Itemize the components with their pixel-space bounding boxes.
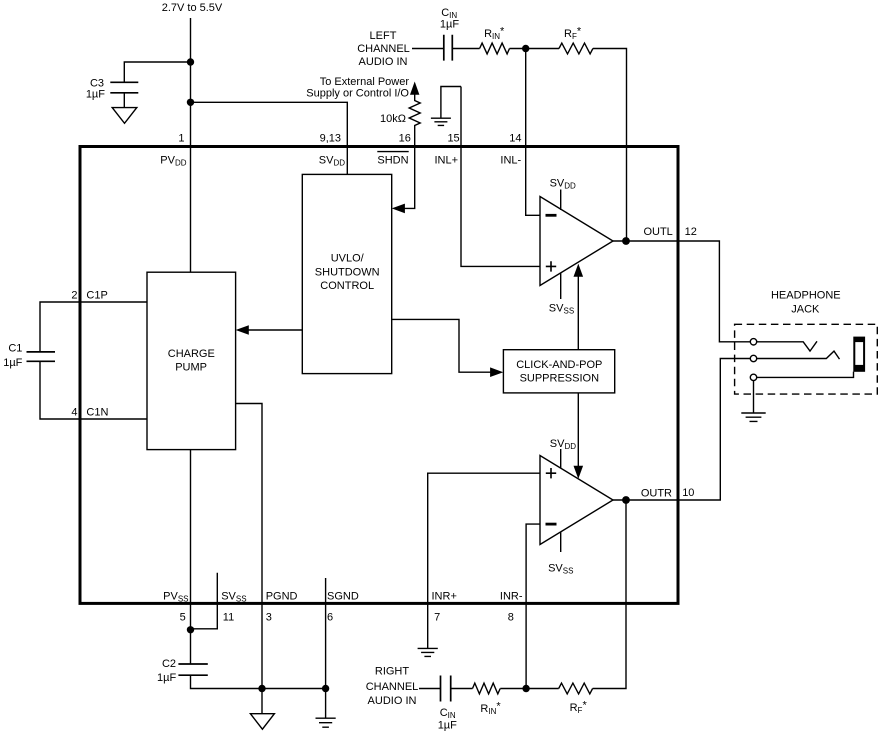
svg-text:AUDIO IN: AUDIO IN	[368, 695, 417, 707]
jack ring contact	[757, 351, 840, 359]
ground signal-ground at INL+ bias	[431, 118, 451, 125]
op-amp U1 SVDD stub	[550, 177, 576, 210]
svg-text:10kΩ: 10kΩ	[380, 113, 406, 125]
wire INR+ pin 7 to U2 and ground	[428, 473, 540, 648]
resistor RIN (right)	[473, 683, 502, 716]
click-and-pop suppression block	[503, 350, 614, 393]
wire CIN to RIN (right)	[451, 688, 473, 690]
jack tip terminal circle	[750, 339, 756, 345]
node VDD junction lower	[187, 99, 194, 106]
node PGND junction	[258, 685, 265, 692]
op-amp U1 left channel	[540, 197, 613, 286]
node OUTL junction	[622, 237, 630, 245]
resistor 10k pull-up on SHDN	[380, 93, 420, 147]
svg-text:2.7V to 5.5V: 2.7V to 5.5V	[162, 2, 223, 14]
svg-text:INL+: INL+	[435, 155, 459, 167]
svg-text:16: 16	[399, 133, 411, 145]
wire VDD to SVDD pin 9,13	[191, 102, 348, 174]
svg-text:15: 15	[447, 133, 459, 145]
svg-text:4: 4	[71, 407, 77, 419]
svg-text:OUTR: OUTR	[641, 487, 672, 499]
label LEFT CHANNEL AUDIO IN	[357, 30, 410, 68]
svg-text:PGND: PGND	[266, 591, 298, 603]
svg-text:SHUTDOWN: SHUTDOWN	[315, 266, 380, 278]
svg-text:7: 7	[434, 612, 440, 624]
svg-text:1: 1	[178, 133, 184, 145]
label To External Power Supply or Control I/O	[306, 76, 409, 100]
svg-text:SHDN: SHDN	[377, 155, 408, 167]
svg-text:OUTL: OUTL	[643, 226, 672, 238]
svg-text:UVLO/: UVLO/	[331, 253, 365, 265]
label HEADPHONE JACK	[771, 290, 841, 316]
svg-text:C1P: C1P	[86, 290, 107, 302]
IC boundary box	[80, 147, 678, 604]
jack tip contact	[757, 341, 817, 351]
wire PGND pin 3 from charge pump	[236, 404, 262, 714]
wire UVLO to click-and-pop with arrowhead	[392, 319, 504, 377]
svg-text:1µF: 1µF	[438, 720, 457, 732]
node PVSS junction	[187, 626, 194, 633]
svg-text:14: 14	[509, 133, 521, 145]
wire C2 to ground bus	[191, 675, 326, 688]
jack sleeve terminal circle	[750, 374, 756, 380]
UVLO/shutdown control block	[302, 174, 391, 373]
wire click-and-pop to U2 with arrowhead	[574, 393, 584, 479]
svg-text:1µF: 1µF	[440, 18, 459, 30]
jack plug symbol	[853, 337, 865, 372]
wire click-and-pop to U1 with arrowhead	[574, 264, 584, 350]
svg-text:INR-: INR-	[500, 591, 523, 603]
svg-text:C2: C2	[162, 658, 176, 670]
svg-text:To External Power: To External Power	[320, 76, 410, 88]
wire RF feedback down to OUTL	[593, 49, 627, 242]
node OUTR junction	[622, 496, 630, 504]
ground power-ground under C3	[112, 93, 137, 124]
svg-text:11: 11	[223, 612, 234, 624]
label RIGHT CHANNEL AUDIO IN	[366, 666, 419, 707]
svg-text:6: 6	[327, 612, 333, 624]
resistor RF (left)	[559, 26, 593, 54]
wire SGND pin 6	[325, 578, 327, 718]
svg-text:JACK: JACK	[791, 303, 820, 315]
wire VDD vertical to charge pump	[190, 18, 192, 272]
resistor RIN (left)	[480, 26, 510, 54]
wire OUTR to headphone jack	[613, 359, 750, 501]
wire C1 to C1N	[40, 361, 147, 419]
wire SVSS pin 11 hook	[191, 573, 218, 629]
wire INL+ bias hook to ground	[441, 87, 461, 119]
svg-text:INL-: INL-	[500, 155, 521, 167]
charge pump block	[147, 272, 236, 449]
op-amp U2 right channel	[540, 456, 613, 545]
svg-text:C1: C1	[8, 342, 22, 354]
wire right audio input to CIN	[419, 688, 441, 690]
capacitor C3 1uF	[86, 78, 138, 101]
wire OUTL to headphone jack	[613, 241, 750, 342]
svg-text:1µF: 1µF	[3, 357, 22, 369]
wire INR- pin 8 to U2 inverting input	[526, 524, 540, 688]
wire jack sleeve to ground	[753, 381, 755, 413]
svg-text:CLICK-AND-POP: CLICK-AND-POP	[516, 359, 602, 371]
ground signal-ground under SGND	[316, 718, 336, 727]
ground power-ground under PGND	[250, 714, 274, 730]
ground signal-ground under INR+	[418, 648, 438, 656]
wire CIN to RIN (left)	[452, 48, 479, 50]
wire INL+ pin 15 to op-amp noninverting input	[461, 87, 540, 267]
wire left audio input to CIN	[412, 48, 444, 50]
svg-text:CHANNEL: CHANNEL	[366, 681, 419, 693]
svg-text:C1N: C1N	[86, 407, 108, 419]
wire RIN to RF node (right)	[500, 688, 558, 690]
svg-text:2: 2	[71, 290, 77, 302]
svg-text:PUMP: PUMP	[175, 362, 207, 374]
wire C1P to C1	[40, 302, 147, 351]
wire INL- pin 14 to op-amp inverting input	[526, 49, 540, 216]
headphone jack dashed outline	[735, 324, 878, 394]
op-amp U1 SVSS stub	[549, 273, 574, 316]
capacitor C2 1uF	[157, 658, 208, 684]
wire RIN to RF node (left)	[510, 48, 560, 50]
svg-text:SGND: SGND	[327, 591, 359, 603]
ground signal-ground at jack	[741, 413, 765, 421]
pin SHDN label with overline	[377, 152, 408, 167]
svg-text:LEFT: LEFT	[370, 30, 397, 42]
capacitor CIN 1uF (left)	[440, 7, 459, 61]
jack sleeve wire	[757, 372, 854, 378]
capacitor C1 1uF	[3, 342, 55, 369]
svg-text:10: 10	[682, 487, 694, 499]
svg-text:AUDIO IN: AUDIO IN	[359, 56, 408, 68]
svg-text:1µF: 1µF	[86, 89, 105, 101]
svg-text:INR+: INR+	[432, 591, 457, 603]
node right input junction	[522, 685, 529, 692]
node VDD junction upper	[187, 58, 194, 65]
svg-text:1µF: 1µF	[157, 672, 176, 684]
svg-text:SUPPRESSION: SUPPRESSION	[520, 372, 600, 384]
wire UVLO to charge pump with arrowhead	[236, 325, 302, 335]
svg-text:5: 5	[180, 612, 186, 624]
resistor RF (right)	[559, 683, 593, 715]
capacitor CIN 1uF (right)	[438, 676, 457, 732]
svg-text:8: 8	[508, 612, 514, 624]
wire VDD to C3	[124, 62, 190, 82]
svg-text:12: 12	[685, 226, 697, 238]
wire RF feedback up to OUTR	[593, 500, 626, 689]
node left input junction	[522, 45, 529, 52]
svg-text:Supply or Control I/O: Supply or Control I/O	[306, 88, 409, 100]
svg-text:3: 3	[266, 612, 272, 624]
op-amp U2 SVDD stub	[550, 438, 576, 469]
svg-text:CHANNEL: CHANNEL	[357, 43, 410, 55]
wire PVSS pin 5 from charge pump	[190, 450, 192, 664]
svg-text:RIGHT: RIGHT	[375, 666, 410, 678]
arrowhead into UVLO right edge	[392, 204, 405, 214]
jack ring terminal circle	[750, 355, 756, 361]
wire SHDN pin 16 to UVLO block	[404, 147, 415, 209]
arrowhead up to external control	[410, 82, 419, 95]
svg-text:CONTROL: CONTROL	[320, 280, 374, 292]
op-amp U2 SVSS stub	[548, 532, 573, 576]
svg-text:HEADPHONE: HEADPHONE	[771, 290, 841, 302]
node SGND junction	[322, 685, 329, 692]
svg-text:CHARGE: CHARGE	[168, 348, 215, 360]
svg-text:9,13: 9,13	[320, 133, 341, 145]
